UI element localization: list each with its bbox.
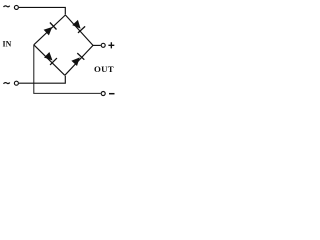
wire: top-right bridge edge <box>65 15 93 45</box>
wire: left node down and along bottom to minus terminal <box>34 45 101 94</box>
minus sign <box>109 93 115 95</box>
wire: bottom-right bridge edge <box>65 45 93 75</box>
diode D1 (top-left edge, pointing to top node) <box>44 23 57 36</box>
diode D4 (bottom-right edge, pointing to right node) <box>71 53 84 66</box>
AC tilde bottom-left <box>4 83 10 84</box>
wire: right node to plus terminal <box>93 44 101 46</box>
wire: top-left bridge edge <box>34 15 66 45</box>
svg-text:IN: IN <box>3 39 12 48</box>
AC tilde top-left <box>4 6 10 7</box>
diode D3 (bottom-left edge, pointing to bottom node) <box>44 52 57 65</box>
wire: AC1 terminal to top node <box>19 7 65 14</box>
diode D2 (top-right edge, pointing to right node) <box>72 20 85 33</box>
wire: AC2 terminal to bottom node <box>19 76 65 84</box>
wire: bottom-left bridge edge <box>34 45 65 76</box>
svg-text:OUT: OUT <box>94 64 114 74</box>
terminal AC1 (top-left circle) <box>14 5 18 9</box>
terminal - (bottom-right circle) <box>101 92 105 96</box>
plus sign <box>108 42 114 48</box>
terminal AC2 (bottom-left circle) <box>14 81 18 85</box>
background <box>0 0 120 104</box>
terminal + (right circle) <box>101 43 105 47</box>
